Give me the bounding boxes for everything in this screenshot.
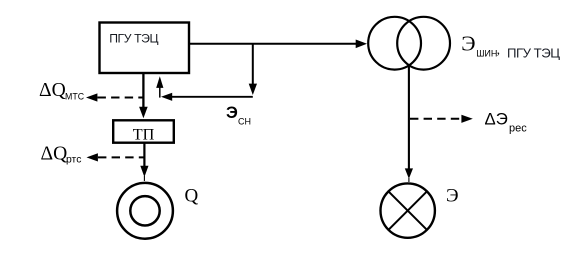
svg-text:Q: Q — [185, 186, 199, 207]
svg-text:Э: Э — [226, 103, 238, 122]
svg-text:ртс: ртс — [66, 154, 81, 165]
svg-text:ΔЭ: ΔЭ — [485, 110, 508, 129]
svg-text:ΔQ: ΔQ — [41, 143, 68, 164]
svg-text:СН: СН — [238, 117, 251, 127]
svg-text:ТП: ТП — [133, 126, 155, 144]
svg-text:ПГУ ТЭЦ: ПГУ ТЭЦ — [507, 46, 560, 61]
svg-text:,: , — [497, 42, 500, 57]
svg-text:Э: Э — [461, 31, 475, 55]
svg-text:Э: Э — [446, 186, 459, 207]
svg-text:ΔQ: ΔQ — [39, 80, 66, 101]
svg-text:ПГУ ТЭЦ: ПГУ ТЭЦ — [109, 31, 158, 45]
svg-text:ШИН: ШИН — [476, 49, 497, 59]
svg-text:рес: рес — [509, 122, 527, 134]
svg-text:МТС: МТС — [65, 92, 85, 102]
